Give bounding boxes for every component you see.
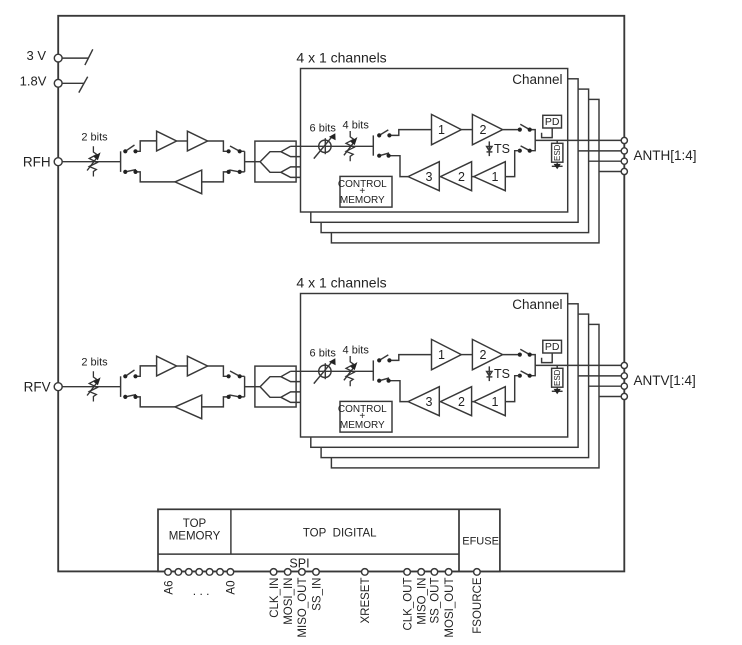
svg-text:EFUSE: EFUSE	[462, 536, 499, 548]
svg-text:MISO_OUT: MISO_OUT	[297, 578, 309, 638]
svg-text:3 V: 3 V	[26, 48, 46, 63]
svg-text:. . .: . . .	[193, 584, 210, 598]
svg-text:MOSI_IN: MOSI_IN	[283, 578, 295, 625]
svg-text:XRESET: XRESET	[360, 578, 372, 624]
svg-text:CLK_OUT: CLK_OUT	[402, 578, 414, 631]
svg-text:ANTH[1:4]: ANTH[1:4]	[634, 148, 697, 163]
svg-text:RFH: RFH	[23, 155, 51, 170]
svg-text:FSOURCE: FSOURCE	[472, 577, 484, 634]
svg-text:SPI: SPI	[289, 557, 309, 571]
svg-text:MEMORY: MEMORY	[169, 531, 221, 543]
svg-text:SS_IN: SS_IN	[311, 578, 323, 611]
svg-text:TOP DIGITAL: TOP DIGITAL	[303, 528, 377, 540]
svg-text:RFV: RFV	[24, 380, 51, 395]
svg-text:TOP: TOP	[183, 518, 207, 530]
svg-text:ANTV[1:4]: ANTV[1:4]	[634, 373, 696, 388]
svg-text:SS_OUT: SS_OUT	[430, 578, 442, 624]
svg-text:A0: A0	[226, 581, 238, 595]
svg-text:MOSI_OUT: MOSI_OUT	[444, 578, 456, 638]
svg-text:CLK_IN: CLK_IN	[269, 578, 281, 618]
svg-text:MISO_IN: MISO_IN	[417, 578, 429, 625]
svg-text:1.8V: 1.8V	[20, 74, 47, 89]
svg-text:A6: A6	[163, 581, 175, 595]
